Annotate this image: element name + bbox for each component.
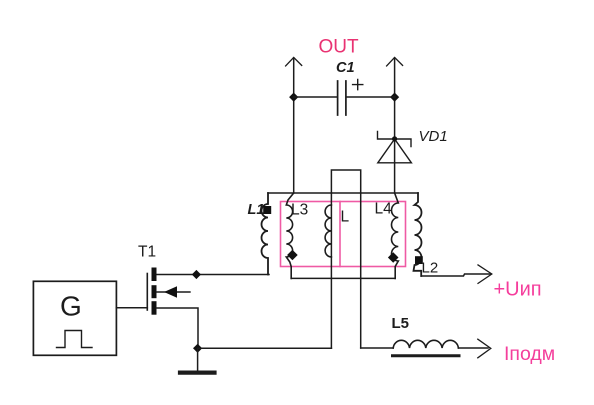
svg-text:L3: L3 [291, 202, 308, 219]
wire T1 source [157, 308, 199, 348]
winding L2 (right outer) [414, 193, 422, 276]
svg-text:L4: L4 [375, 201, 393, 218]
winding frame divider (magenta) [339, 202, 341, 267]
transistor T1 body arrow line [157, 291, 191, 293]
wire right output rail (through VD1) [394, 58, 396, 193]
svg-text:G: G [60, 291, 82, 322]
polarity dot L3 [287, 250, 298, 261]
wire junction to ground [197, 348, 199, 371]
svg-text:OUT: OUT [319, 37, 360, 58]
arrow Ipodm [478, 339, 491, 358]
node junction source/ground [193, 344, 202, 353]
transistor T1 drain bar [152, 268, 157, 282]
polarity square L1 [263, 206, 271, 214]
svg-text:+Uип: +Uип [494, 279, 542, 301]
node junction right rail / C1 [390, 93, 399, 102]
transistor T1 body bar [152, 285, 157, 298]
transistor T1 body arrowhead [164, 286, 177, 297]
wire middle-right pass-through (to L5) [360, 193, 362, 348]
svg-text:L: L [341, 209, 350, 226]
wire L5 to Ipodm arrow [458, 347, 488, 349]
svg-text:L1: L1 [248, 202, 265, 218]
wire transformer bottom bus [291, 277, 395, 279]
svg-text:C1: C1 [336, 60, 355, 76]
diode VD1 triangle [378, 139, 412, 163]
wire left output rail [293, 58, 295, 193]
svg-text:Iподм: Iподм [504, 343, 555, 365]
svg-text:L5: L5 [392, 315, 410, 332]
diode VD1 (zener) cathode bar [378, 132, 412, 147]
winding L (middle) [325, 205, 331, 257]
winding L3 [286, 193, 293, 278]
svg-text:VD1: VD1 [419, 128, 448, 145]
wire transformer top bus [268, 192, 418, 194]
wire C1 left lead [294, 96, 337, 98]
svg-text:T1: T1 [138, 244, 156, 261]
arrow +Uip [478, 265, 492, 284]
node junction on drain wire [192, 270, 201, 279]
generator pulse symbol [57, 331, 93, 348]
wire T1 drain to L1 [157, 274, 270, 276]
winding frame (magenta) [281, 202, 406, 267]
transistor T1 source bar [152, 301, 157, 315]
wire G to T1 gate [116, 307, 147, 309]
polarity dot L4 [388, 252, 399, 263]
generator G box [33, 281, 116, 355]
wire L2 bottom to +Uip arrow [421, 274, 491, 276]
node junction left rail / C1 [289, 93, 298, 102]
svg-text:L2: L2 [422, 260, 439, 277]
wire L pass-through to L5 [361, 347, 394, 349]
wire C1 right lead [347, 96, 395, 98]
winding L1 (left outer) [262, 193, 269, 275]
ground [180, 371, 215, 375]
wire jumper above transformer [331, 170, 360, 193]
arrow (right OUT rail) [387, 57, 403, 66]
inductor L5 [393, 340, 458, 348]
inductor L5 core bar [393, 354, 460, 357]
polarity square L2 [415, 256, 423, 264]
wire middle-left pass-through (L winding lead) [330, 193, 332, 348]
capacitor C1 plates [338, 81, 346, 115]
arrow (left OUT rail) [286, 57, 302, 66]
winding L4 [391, 193, 398, 278]
wire source junction to L [198, 347, 332, 349]
capacitor C1 polarity plus [353, 80, 363, 90]
transistor T1 gate line [146, 274, 148, 311]
node VD1 apex dot [392, 136, 397, 141]
